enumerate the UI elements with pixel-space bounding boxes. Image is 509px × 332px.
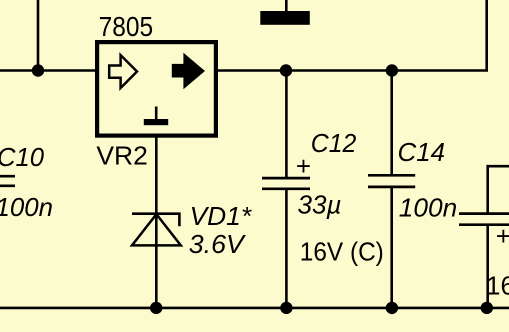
wire top rail right segment with corner up to top edge (216, 0, 487, 71)
svg-text:C10: C10 (0, 142, 45, 172)
node junction right cap bottom (481, 302, 493, 314)
svg-text:16: 16 (486, 271, 509, 301)
capacitor C10 plates (cut off at left edge) (0, 176, 15, 186)
wire right cap feed from right edge with corner (488, 166, 509, 212)
wire C14 upper lead (390, 71, 393, 176)
op-amp-box regulator VR2 outline (97, 42, 216, 136)
svg-text:C12: C12 (311, 128, 357, 158)
svg-text:VD1*: VD1* (190, 201, 252, 231)
svg-text:7805: 7805 (99, 11, 154, 42)
node junction C12 bottom (280, 302, 292, 314)
node junction C12 top (280, 64, 292, 76)
wire vertical input drop at x=38 (37, 0, 40, 71)
svg-text:100n: 100n (399, 192, 458, 222)
regulator input arrow (hollow) (109, 55, 137, 88)
wire C14 lower lead (390, 188, 393, 308)
zener diode VD1 triangle (132, 214, 181, 245)
wire C12 upper lead (285, 71, 288, 178)
svg-text:C14: C14 (398, 137, 446, 167)
svg-text:VR2: VR2 (96, 140, 147, 170)
wire bottom ground rail (0, 307, 509, 310)
connector bar (filled) (260, 11, 310, 25)
node junction C14 top (386, 64, 398, 76)
capacitor C12 plates (262, 178, 310, 189)
zener diode VD1 cathode bar with bent end (132, 214, 179, 227)
svg-text:33µ: 33µ (298, 190, 342, 220)
capacitor C?(right, cut) plates (459, 214, 509, 225)
node junction zener bottom (150, 302, 162, 314)
svg-text:+: + (496, 221, 509, 251)
svg-text:+: + (296, 151, 311, 181)
svg-text:100n: 100n (0, 192, 53, 222)
capacitor C14 plates (368, 175, 415, 187)
wire C12 lower lead (285, 190, 288, 308)
regulator output arrow (filled) (172, 53, 205, 90)
wire VR2 ground pin down through zener to bottom rail (155, 136, 158, 308)
regulator internal ground symbol (155, 107, 158, 120)
wire top rail left segment (0, 69, 97, 72)
node junction C14 bottom (386, 302, 398, 314)
node input junction (32, 64, 44, 76)
wire stub from top edge into connector bar (285, 0, 288, 12)
svg-text:3.6V: 3.6V (189, 229, 247, 259)
wire right cap lower lead (486, 226, 489, 308)
svg-text:16V (C): 16V (C) (300, 236, 384, 266)
